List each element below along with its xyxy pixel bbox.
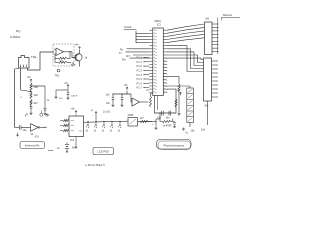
power +5V (amp rail)	[64, 82, 69, 90]
svg-text:Infra-red Rx: Infra-red Rx	[25, 144, 40, 148]
label Clock	[124, 25, 137, 29]
svg-text:1x 470R: 1x 470R	[163, 125, 172, 128]
resistor Rg (lower)	[55, 58, 75, 65]
marker circle (stage id)	[57, 69, 60, 72]
wire Rx input	[120, 48, 149, 51]
svg-text:BC5: BC5	[71, 65, 76, 67]
svg-text:P1.0: P1.0	[137, 56, 143, 60]
svg-text:(89C): (89C)	[155, 19, 162, 23]
svg-text:P1.2: P1.2	[137, 64, 143, 68]
svg-text:+5v: +5v	[27, 75, 32, 79]
resistor network RN1 (6 elements)	[167, 86, 194, 127]
svg-text:P1.6: P1.6	[137, 81, 143, 85]
svg-text:10n: 10n	[106, 102, 111, 105]
wire TRa output to amp	[28, 52, 55, 70]
resistor R (RN col)	[178, 84, 180, 92]
label 4k7 (between feedback resistors)	[54, 58, 63, 63]
svg-text:(N1: (N1	[206, 18, 211, 21]
power arrow (C2 foot)	[47, 114, 49, 117]
wire clock bus	[136, 31, 149, 43]
wire RN col lower	[178, 92, 180, 112]
label box: Infra-red Rx	[20, 142, 45, 149]
resistor R (right drop)	[175, 99, 177, 107]
battery B1 legend	[48, 143, 75, 153]
capacitor C5 (decoupling)	[157, 111, 163, 120]
transistor array Q1-Q5 (rail)	[86, 122, 121, 128]
resistor 1k0 (bias mid)	[30, 92, 38, 99]
resistor 470R (sub)	[162, 121, 172, 128]
svg-text:Clock: Clock	[124, 25, 132, 29]
capacitor C3 (series, on gate input)	[19, 125, 27, 132]
svg-text:1k0: 1k0	[34, 93, 39, 97]
connector CN1 body	[205, 22, 213, 55]
op-amp U1 triangle	[54, 48, 64, 56]
wire Rst input	[122, 58, 149, 61]
svg-text:10k: 10k	[34, 85, 39, 89]
svg-text:Photo-interrupters: Photo-interrupters	[164, 143, 185, 147]
resistor R (to IC1)	[150, 94, 153, 108]
IC U1 left pins	[149, 30, 153, 92]
svg-text:4N35: 4N35	[128, 114, 134, 117]
ground (IC2 bottom)	[74, 137, 77, 149]
label gate 4b	[31, 133, 34, 136]
resistor Rf (feedback)	[55, 52, 70, 60]
label TR1 stage	[55, 75, 60, 78]
transistor TR1	[72, 50, 82, 67]
resistor 4k7 (rail right)	[140, 118, 157, 126]
label part no (amp)	[71, 65, 76, 67]
node rail junctions	[87, 121, 120, 122]
label Motors	[222, 13, 241, 20]
power +5V (osc rail)	[124, 84, 129, 90]
ground 0v (chain foot)	[182, 128, 189, 135]
capacitor C4b 100uF	[66, 90, 77, 100]
wire bus IC1 to CN2 (nested elbows)	[167, 46, 204, 72]
label box: LCD PSU	[93, 148, 114, 155]
svg-text:P1.3: P1.3	[137, 69, 143, 73]
svg-text:(N2: (N2	[205, 105, 210, 108]
node bias junction	[21, 90, 32, 92]
svg-text:10n: 10n	[166, 117, 171, 120]
capacitor C2 branch	[43, 86, 49, 115]
wire gate output	[40, 127, 47, 129]
svg-text:IC2: IC2	[70, 138, 75, 142]
svg-text:1n0: 1n0	[106, 94, 111, 97]
label gate IC4	[35, 136, 39, 139]
labels IC1 port pins (left lower)	[137, 56, 150, 90]
resistor R (U2 in3)	[60, 129, 69, 131]
wire TRa left pin down	[15, 68, 20, 127]
wire CN2 bottom drop	[201, 101, 208, 132]
connector CN2 body	[204, 58, 212, 101]
label 1k (TR1 out)	[85, 57, 88, 60]
capacitor C1 with ground	[29, 106, 32, 115]
svg-text:4k7: 4k7	[126, 55, 131, 58]
polarity circle (C2)	[40, 111, 43, 117]
transformer TRa body	[19, 56, 30, 69]
label CN1	[206, 18, 211, 21]
wire osc rail	[112, 91, 131, 95]
svg-text:IC1: IC1	[157, 24, 161, 27]
label TRa	[31, 55, 37, 59]
svg-text:Motors: Motors	[223, 13, 233, 17]
gate U3b (osc inverter)	[131, 94, 140, 106]
power arrow (bias foot)	[25, 114, 28, 117]
label +5 (to IC1)	[146, 89, 149, 92]
wire U3b output	[140, 101, 149, 103]
capacitor C10 (left of U2)	[46, 114, 48, 116]
wire Tx input	[119, 52, 149, 55]
label CN2	[205, 105, 210, 108]
svg-text:10u: 10u	[23, 129, 28, 132]
svg-text:P1.5: P1.5	[137, 77, 143, 81]
svg-text:IC4: IC4	[35, 136, 39, 139]
label 2x 2n2	[103, 111, 111, 114]
ground (gate input cap)	[16, 133, 19, 137]
label 10k (RN1)	[191, 130, 196, 133]
wire TRa mid pin down	[20, 68, 22, 90]
power +V arrow (rail pullup)	[91, 110, 98, 122]
resistor R (U2 in2)	[60, 124, 69, 126]
capacitor C8 with ground	[106, 94, 115, 107]
IC U1 right pins	[163, 30, 167, 92]
annotation: handwritten title note	[10, 29, 21, 39]
svg-text:TRa: TRa	[31, 55, 37, 59]
svg-text:0.4MHz: 0.4MHz	[10, 35, 21, 39]
power +5V (TR1 collector)	[75, 44, 81, 50]
svg-text:P1.7: P1.7	[137, 86, 143, 90]
IC U1 pin labels (inside)	[154, 30, 157, 93]
resistor 10k (bias upper)	[30, 83, 38, 91]
gate U4a body	[31, 124, 40, 132]
resistor R (U2 in1)	[60, 119, 69, 121]
svg-text:L.Bonn Rad ©: L.Bonn Rad ©	[86, 163, 106, 167]
resistor 4k7 (bias lower)	[30, 100, 38, 106]
power +5V arrow (bias)	[27, 75, 33, 82]
label U4	[128, 114, 134, 117]
ground (RN column)	[177, 112, 180, 115]
dashed box (amplifier module)	[53, 44, 74, 66]
capacitor C9 with ground	[106, 94, 124, 107]
capacitor C4a with ground	[54, 90, 63, 100]
transistor Q5 (sub) with ground	[154, 119, 160, 130]
svg-text:LCD PSU: LCD PSU	[97, 150, 109, 154]
capacitor C7 with ground	[171, 118, 176, 128]
power +5V (near C6)	[177, 89, 182, 95]
label IC2	[70, 138, 75, 142]
wire LED rail	[84, 121, 153, 122]
IC U1 pin numbers (right)	[164, 58, 168, 93]
wire IC1 right drop	[167, 89, 176, 113]
svg-text:Rst: Rst	[122, 58, 126, 61]
connector CN2 right pins	[212, 60, 218, 97]
opto isolator U4 box	[128, 118, 138, 127]
wire supply rail (amp)	[56, 89, 68, 91]
svg-text:Dry: Dry	[16, 29, 21, 33]
IC U2 body	[69, 116, 84, 137]
label v (bias)	[21, 96, 23, 99]
wire IC pin to RN column	[167, 77, 179, 84]
IC U2 inner marks	[71, 121, 83, 132]
wire bus IC1 to CN1 (5 lines)	[167, 24, 205, 43]
svg-text:P1.1: P1.1	[137, 60, 143, 64]
annotation: credit	[86, 163, 106, 167]
wire sub-branch	[159, 112, 162, 121]
wire gate input	[15, 126, 31, 128]
svg-text:100uF: 100uF	[71, 96, 78, 98]
IC U1 (89C52) body	[153, 28, 164, 96]
connector CN1 right pins	[212, 23, 218, 52]
svg-text:TR1: TR1	[55, 75, 60, 78]
label box: Photo-interrupters	[157, 140, 192, 150]
wire IC1 bottom left drop	[155, 96, 177, 114]
label IC1 89C52	[155, 19, 162, 27]
labels transistor values	[86, 131, 121, 133]
wire 4k7 input	[126, 55, 149, 58]
capacitor C6 (decoupling)	[166, 111, 171, 120]
svg-text:4k7: 4k7	[34, 101, 39, 105]
power +5V (U2)	[71, 108, 78, 117]
svg-text:P1.4: P1.4	[137, 73, 143, 77]
wire op-amp output	[64, 51, 73, 52]
wire bias to C2 branch	[30, 85, 45, 86]
svg-text:2x 2n2: 2x 2n2	[103, 111, 111, 114]
wire CN1 pin bus	[217, 18, 219, 55]
